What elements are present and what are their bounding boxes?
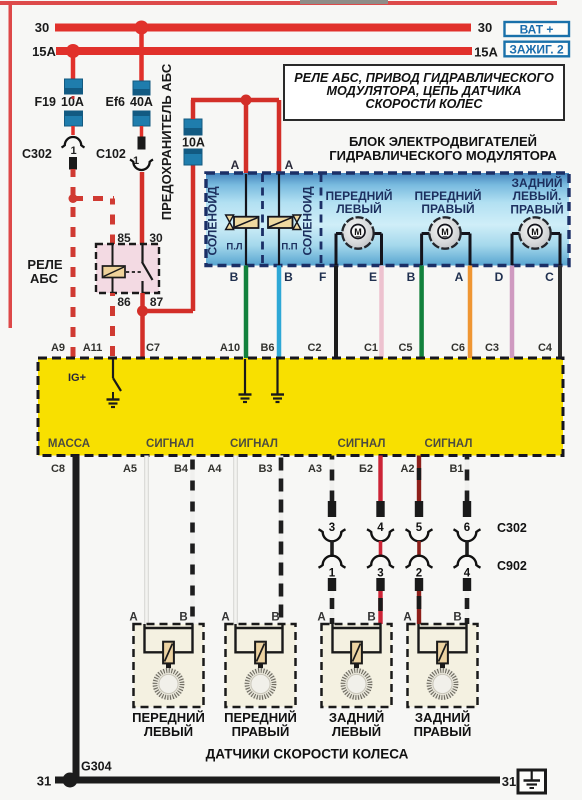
relay ABS box [27, 244, 159, 293]
svg-text:2: 2 [416, 568, 422, 580]
sensor rear left label [329, 710, 384, 739]
wheel speed sensor front left box [129, 612, 203, 708]
svg-text:ПЕРЕДНИЙ: ПЕРЕДНИЙ [325, 188, 392, 203]
wheel speed sensor rear right box [403, 612, 477, 708]
motor U2 (front right pump motor) [422, 217, 470, 265]
svg-text:ПРАВЫЙ: ПРАВЫЙ [414, 724, 472, 739]
svg-text:С6: С6 [451, 342, 465, 354]
wire A3 lower segment [330, 591, 335, 624]
connector C102, pin 1 [96, 137, 153, 171]
svg-text:МОДУЛЯТОРА, ЦЕПЬ ДАТЧИКА: МОДУЛЯТОРА, ЦЕПЬ ДАТЧИКА [327, 84, 522, 98]
motor U1 label front left [325, 188, 392, 216]
wire stub B2 between connector halves [379, 541, 383, 557]
bus 30 (BAT+) [35, 20, 492, 35]
junction dot on wire C7 [137, 306, 148, 317]
ground symbol inside unit (A10 path) [239, 359, 252, 402]
svg-text:А3: А3 [308, 463, 322, 475]
wire stub B1 between connector halves [465, 541, 469, 557]
sensor front left label [132, 710, 205, 739]
wire А3 upper segment [330, 456, 335, 502]
wire fuse 10A to solenoid feed rail [191, 100, 279, 119]
connector C302 pin 3 wire A3 [319, 501, 346, 541]
svg-text:А: А [317, 612, 325, 624]
svg-text:С7: С7 [146, 342, 160, 354]
ZAZHIG.2 terminal box [505, 42, 570, 57]
svg-text:В: В [230, 270, 239, 284]
svg-text:СОЛЕНОИД: СОЛЕНОИД [206, 186, 220, 255]
wire C1 pink (motor1) [379, 266, 384, 359]
wire B2 lower segment [378, 591, 382, 624]
svg-text:1: 1 [329, 568, 336, 580]
wire A10 green (solenoid PL return) [244, 266, 249, 359]
svg-text:D: D [495, 270, 504, 284]
solenoid PP (front right) [268, 174, 301, 265]
svg-text:30: 30 [149, 231, 163, 245]
svg-text:А4: А4 [207, 463, 222, 475]
svg-text:А10: А10 [220, 342, 240, 354]
svg-text:ЗАДНИЙ: ЗАДНИЙ [329, 710, 384, 725]
control unit bottom pin labels [51, 463, 464, 475]
svg-text:П.П: П.П [281, 242, 297, 253]
connector C302 (fuse side), pin 1 [22, 137, 85, 169]
sensor front right toothed ring [245, 668, 277, 700]
svg-text:А: А [403, 612, 411, 624]
junction node on A9 wire [69, 194, 78, 203]
vertical label: ABS fuse [159, 63, 174, 220]
wire B1 upper segment [465, 456, 470, 502]
vertical label SOLENOID 1 [206, 186, 220, 255]
connector label C302 [497, 521, 527, 535]
divider dashed line 2 [320, 174, 323, 265]
sensor front left internal circuit [145, 624, 193, 669]
svg-text:ПРАВЫЙ: ПРАВЫЙ [510, 202, 563, 217]
svg-text:РЕЛЕ АБС, ПРИВОД ГИДРАВЛИЧЕСКО: РЕЛЕ АБС, ПРИВОД ГИДРАВЛИЧЕСКОГО [294, 71, 554, 85]
svg-text:С: С [545, 270, 554, 284]
svg-text:ЛЕВЫЙ: ЛЕВЫЙ [332, 724, 381, 739]
svg-text:БЛОК ЭЛЕКТРОДВИГАТЕЛЕЙ: БЛОК ЭЛЕКТРОДВИГАТЕЛЕЙ [349, 134, 537, 149]
svg-text:ПРЕДОХРАНИТЕЛЬ АБС: ПРЕДОХРАНИТЕЛЬ АБС [159, 63, 174, 220]
wire B3 (black/white stripe) [279, 456, 284, 625]
svg-text:СИГНАЛ: СИГНАЛ [146, 438, 194, 450]
svg-text:ЗАДНИЙ: ЗАДНИЙ [415, 710, 470, 725]
svg-text:C302: C302 [497, 521, 527, 535]
connector C302 pin 5 wire A2 [406, 501, 433, 541]
sensor rear right label [414, 710, 472, 739]
BAT+ terminal box [505, 22, 570, 37]
svg-text:А5: А5 [123, 463, 137, 475]
wire C5 green (motor2) [419, 266, 424, 359]
svg-text:ЛЕВЫЙ: ЛЕВЫЙ [336, 201, 381, 216]
fuse 10A (ABS) [182, 119, 205, 165]
svg-text:А2: А2 [400, 463, 414, 475]
svg-text:G304: G304 [81, 760, 112, 774]
svg-text:А: А [231, 158, 240, 172]
control unit bottom function labels [48, 438, 473, 450]
svg-text:40А: 40А [130, 95, 153, 109]
wire C4 dark (motor3) [558, 266, 562, 359]
svg-text:ПРАВЫЙ: ПРАВЫЙ [232, 724, 290, 739]
connector C902 pin 3 wire B2 [367, 556, 394, 591]
wire B6 cyan (solenoid PP return) [277, 266, 282, 359]
wire C102 to relay pin 30 [140, 172, 145, 244]
sensor front right label [224, 710, 297, 739]
svg-text:31: 31 [502, 774, 516, 789]
wire B1 lower segment [465, 591, 470, 624]
wire from bus 15A to fuse F19 [71, 51, 76, 80]
wire stub A2 between connector halves [417, 541, 421, 557]
wire fuse Ef6 to connector C102 [140, 126, 144, 137]
svg-text:6: 6 [464, 522, 470, 534]
svg-text:В: В [271, 612, 279, 624]
svg-text:ЗАЖИГ. 2: ЗАЖИГ. 2 [509, 43, 564, 57]
svg-text:F19: F19 [34, 95, 56, 109]
motor U3 (rear pump motor) [512, 217, 560, 265]
motor U2 label front right [414, 188, 481, 216]
connector label C902 [497, 559, 527, 573]
motor U1 (front left pump motor) [336, 217, 382, 265]
junction dot on bus 15A [66, 44, 80, 58]
relay pin labels 85 30 86 87 [117, 231, 163, 309]
svg-text:МАССА: МАССА [48, 438, 90, 450]
wire A11: striped red/white from relay 86 to control unit [110, 293, 115, 358]
svg-text:А11: А11 [83, 342, 103, 354]
wire junction to ABS fuse 10A [143, 165, 194, 311]
svg-text:5: 5 [416, 522, 423, 534]
wire stub A3 between connector halves [330, 541, 334, 557]
wire A9: striped red/white from C302 down to control unit [71, 169, 76, 358]
sensor rear left internal circuit [333, 624, 381, 669]
svg-text:В4: В4 [174, 463, 189, 475]
svg-text:В: В [179, 612, 187, 624]
svg-text:3: 3 [329, 522, 335, 534]
svg-text:АБС: АБС [30, 271, 59, 286]
svg-text:СИГНАЛ: СИГНАЛ [338, 438, 386, 450]
svg-text:С4: С4 [538, 342, 553, 354]
wire C8 ground (thick black) [73, 456, 80, 781]
svg-text:ПРАВЫЙ: ПРАВЫЙ [421, 201, 474, 216]
wire from bus 30 to fuse Ef6 [139, 31, 144, 82]
svg-text:В: В [407, 270, 416, 284]
wheel speed sensor front right box [221, 612, 295, 708]
wire B2 upper segment [378, 456, 382, 503]
caption: wheel speed sensors [206, 747, 409, 762]
svg-text:М: М [441, 227, 449, 237]
label: hydraulic modulator motor block [329, 134, 557, 163]
wire B4 (black/white stripe) [190, 456, 195, 625]
svg-text:ЛЕВЫЙ: ЛЕВЫЙ [144, 724, 193, 739]
divider dashed line 1 [261, 174, 264, 265]
connector C902 pin 4 wire B1 [454, 556, 481, 591]
relay switch contact 30-87 [126, 244, 153, 293]
wire C3 violet (motor3) [510, 266, 515, 359]
wire fuse F19 to connector C302 [71, 126, 75, 135]
svg-text:86: 86 [117, 295, 131, 309]
svg-text:15А: 15А [32, 44, 56, 59]
ground symbol inside unit (B6 path) [271, 359, 284, 402]
svg-text:В3: В3 [258, 463, 272, 475]
wire C2 black (motor1) [334, 266, 338, 359]
connector C302 pin 6 wire B1 [454, 501, 481, 541]
svg-text:В1: В1 [449, 463, 463, 475]
svg-text:Б2: Б2 [359, 463, 373, 475]
svg-text:85: 85 [117, 231, 131, 245]
svg-text:С302: С302 [22, 147, 52, 161]
svg-text:А: А [285, 158, 294, 172]
svg-text:РЕЛЕ: РЕЛЕ [27, 257, 62, 272]
svg-text:ПЕРЕДНИЙ: ПЕРЕДНИЙ [414, 188, 481, 203]
svg-text:Ef6: Ef6 [106, 95, 126, 109]
connector C302 pin 4 wire B2 [367, 501, 394, 541]
wire A2 lower segment [417, 591, 421, 624]
svg-text:ПЕРЕДНИЙ: ПЕРЕДНИЙ [132, 710, 205, 725]
svg-text:А: А [221, 612, 229, 624]
svg-text:30: 30 [478, 20, 492, 35]
vertical label SOLENOID 2 [301, 186, 315, 255]
svg-text:F: F [319, 270, 326, 284]
svg-text:СКОРОСТИ КОЛЕС: СКОРОСТИ КОЛЕС [366, 97, 484, 111]
fuse F19 10A [34, 79, 83, 126]
pin A label solenoid PP [285, 158, 294, 172]
ground node G304 [63, 760, 112, 788]
solenoid PL (front left) [226, 174, 259, 265]
connector C902 pin 2 wire A2 [406, 556, 433, 591]
relay coil [103, 244, 126, 293]
sensor rear left toothed ring [341, 668, 373, 700]
feed wire to solenoid PL [244, 100, 249, 174]
wire C7: red from relay 87 to control unit [140, 293, 145, 358]
svg-text:IG+: IG+ [68, 372, 86, 384]
feed wire to solenoid PP [277, 100, 282, 174]
svg-text:4: 4 [464, 568, 471, 580]
svg-text:15А: 15А [474, 45, 498, 60]
svg-text:1: 1 [70, 145, 76, 157]
svg-text:ГИДРАВЛИЧЕСКОГО МОДУЛЯТОРА: ГИДРАВЛИЧЕСКОГО МОДУЛЯТОРА [329, 148, 557, 163]
svg-text:М: М [354, 227, 362, 237]
sensor front left toothed ring [153, 668, 185, 700]
svg-text:4: 4 [377, 522, 384, 534]
sensor front right internal circuit [236, 624, 283, 669]
svg-text:ВАТ +: ВАТ + [520, 23, 554, 37]
svg-text:87: 87 [150, 295, 164, 309]
svg-text:М: М [531, 227, 539, 237]
svg-text:А: А [129, 612, 137, 624]
svg-text:C102: C102 [96, 147, 126, 161]
wire A2 upper segment [417, 456, 421, 503]
svg-text:31: 31 [37, 774, 51, 789]
svg-text:В: В [367, 612, 375, 624]
bus 31 (ground) [37, 774, 516, 790]
junction dot on bus 30 [135, 21, 149, 35]
pin A label solenoid PL [231, 158, 240, 172]
wire A4 (white) [233, 456, 238, 625]
wire branch to relay pin 85 [73, 199, 114, 245]
control unit top pin labels [51, 342, 553, 354]
wheel speed sensor rear left box [317, 612, 391, 708]
svg-text:ЗАДНИЙ: ЗАДНИЙ [511, 175, 562, 190]
svg-text:С8: С8 [51, 463, 65, 475]
page border top [0, 0, 557, 5]
svg-text:СИГНАЛ: СИГНАЛ [230, 438, 278, 450]
svg-text:ДАТЧИКИ СКОРОСТИ КОЛЕСА: ДАТЧИКИ СКОРОСТИ КОЛЕСА [206, 747, 409, 762]
svg-text:А: А [455, 270, 464, 284]
motor U3 label rear left/right [510, 175, 563, 217]
svg-text:С3: С3 [485, 342, 499, 354]
sensor rear right toothed ring [427, 668, 459, 700]
svg-text:А9: А9 [51, 342, 65, 354]
pin letters below motor block [230, 270, 555, 284]
title box [284, 65, 564, 120]
svg-text:В: В [453, 612, 461, 624]
svg-text:10А: 10А [182, 136, 205, 150]
internal switch from pin A11 [113, 359, 121, 391]
svg-text:Е: Е [369, 270, 377, 284]
svg-text:С5: С5 [398, 342, 412, 354]
svg-text:C902: C902 [497, 559, 527, 573]
wire A5 (white) [144, 456, 149, 625]
wire C6 orange (motor2) [468, 266, 473, 359]
svg-text:СИГНАЛ: СИГНАЛ [425, 438, 473, 450]
fuse Ef6 40A [106, 81, 153, 126]
svg-text:С2: С2 [307, 342, 321, 354]
chassis ground symbol box [518, 770, 546, 793]
svg-text:С1: С1 [364, 342, 378, 354]
junction dot on feed rail [241, 95, 252, 106]
bus 15A (ignition 2) [32, 44, 498, 60]
svg-text:П.Л: П.Л [226, 242, 242, 253]
svg-text:ПЕРЕДНИЙ: ПЕРЕДНИЙ [224, 710, 297, 725]
hydraulic modulator motor block (blue box) [206, 173, 569, 266]
svg-text:В6: В6 [260, 342, 274, 354]
sensor rear right internal circuit [419, 624, 467, 669]
ABS control unit (yellow box) [38, 358, 563, 456]
connector C902 pin 1 wire A3 [319, 556, 346, 591]
svg-text:3: 3 [377, 568, 383, 580]
page border left [9, 2, 13, 328]
ground symbol inside unit (A11 path) [107, 392, 120, 407]
svg-text:30: 30 [35, 20, 49, 35]
svg-text:ЛЕВЫЙ.: ЛЕВЫЙ. [513, 188, 562, 203]
svg-text:В: В [284, 270, 293, 284]
svg-text:СОЛЕНОИД: СОЛЕНОИД [301, 186, 315, 255]
